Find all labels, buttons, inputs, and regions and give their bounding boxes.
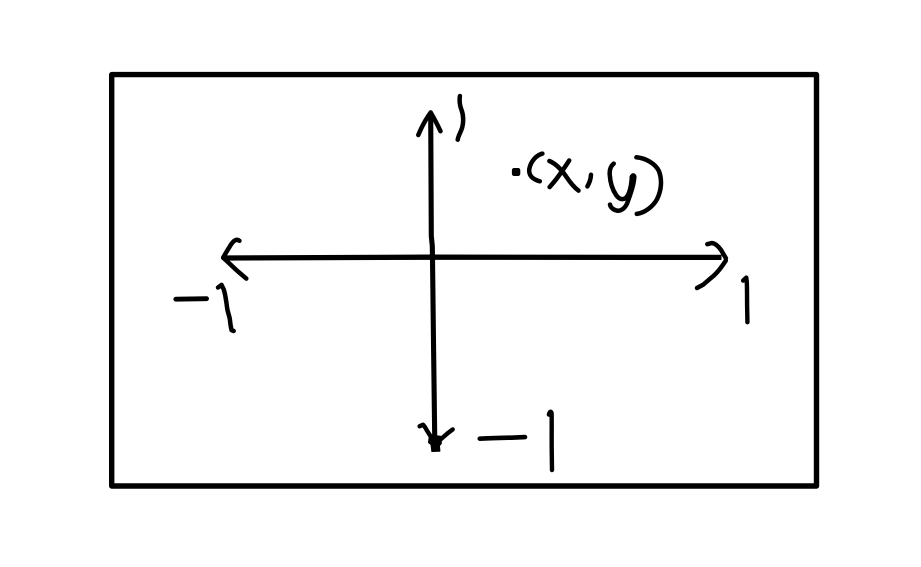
label 1 on y-axis (top) — [458, 96, 463, 140]
x letter stroke 1 — [549, 161, 578, 191]
x-axis right arrowhead — [697, 243, 726, 288]
y-axis top arrowhead — [418, 113, 440, 136]
minus of bottom -1 — [480, 437, 525, 439]
y letter knot — [629, 174, 635, 181]
1 on x-axis (right) — [743, 278, 747, 323]
y-axis line — [431, 114, 435, 437]
y-axis bottom arrow ink blob — [429, 435, 442, 452]
comma — [587, 175, 591, 187]
) of (x,y) — [636, 157, 661, 214]
( of (x,y) — [529, 154, 542, 182]
y letter — [610, 164, 635, 211]
x-axis left arrowhead — [223, 240, 246, 279]
x letter stroke 2 — [550, 161, 570, 188]
minus of left -1 — [176, 296, 207, 301]
y-axis bottom arrowhead — [420, 425, 453, 440]
x-axis line — [224, 255, 722, 261]
point dot — [512, 168, 520, 176]
outer frame — [112, 75, 817, 486]
1 of bottom -1 — [549, 412, 552, 470]
1 of left -1 — [218, 285, 234, 331]
